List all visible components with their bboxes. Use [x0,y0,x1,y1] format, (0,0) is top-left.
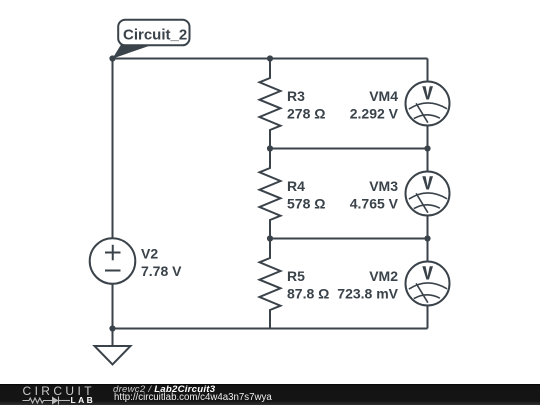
node flag Circuit_2 [112,20,189,59]
junction R3/R4 row2 left [267,145,273,151]
svg-text:278 Ω: 278 Ω [287,106,325,122]
voltmeter VM4 labels [350,88,399,122]
junction row2 right [424,145,430,151]
wire: right column segment row2 to VM3 top [427,149,429,172]
wire: row 3 horizontal (R4 bottom / R5 top to meters column) [270,238,428,240]
wire: right column segment VM4 bottom to row2 [427,126,429,149]
ground [95,329,131,365]
junction R4/R5 row3 left [267,235,273,241]
wire: V2 bottom to bottom-left node [112,284,114,329]
wire: row 2 horizontal (R3 bottom / R4 top to meters column) [270,148,428,150]
svg-text:Circuit_2: Circuit_2 [123,27,187,44]
wire: bottom horizontal net [113,328,428,330]
footer line 1: user / circuit name [113,385,215,394]
voltmeter VM2 [406,262,450,306]
junction bottom-left node [109,325,115,331]
svg-text:4.765 V: 4.765 V [350,196,399,212]
svg-text:VM4: VM4 [369,88,398,104]
voltmeter VM2 labels [337,268,398,302]
resistor R5 [260,239,281,329]
CircuitLab logo schematic (resistor + diode) [18,395,70,405]
footer line 2: url [114,393,272,402]
junction R3 top [267,55,273,61]
svg-text:R3: R3 [287,88,305,104]
resistor R4 labels [287,178,325,212]
resistor R3 labels [287,88,325,122]
voltmeter VM4 [406,82,450,126]
wire: right column segment VM3 bottom to row3 [427,216,429,239]
wire: top horizontal net from node A to right column [113,58,428,60]
svg-text:R5: R5 [287,268,305,284]
svg-text:R4: R4 [287,178,305,194]
voltage source V2 labels [141,246,182,280]
voltage source V2 [90,238,136,284]
svg-text:7.78 V: 7.78 V [141,263,182,279]
CircuitLab logo text LAB [71,397,96,404]
wire: right column segment VM2 bottom to bottom net [427,306,429,329]
CircuitLab logo text CIRCUIT [23,386,95,396]
resistor R5 labels [287,268,329,302]
voltmeter VM3 labels [350,178,399,212]
voltmeter VM3 [406,172,450,216]
svg-text:V2: V2 [141,246,158,262]
junction row3 right [424,235,430,241]
wire: left vertical from node A down to V2 top [112,59,114,239]
wire: right column segment row3 to VM2 top [427,239,429,262]
svg-text:2.292 V: 2.292 V [350,106,399,122]
footer bar [0,384,540,405]
resistor R3 [260,59,281,149]
junction at node A (top-left) [109,55,115,61]
wire: right column segment VM4 top [427,59,429,82]
svg-text:87.8 Ω: 87.8 Ω [287,286,329,302]
svg-text:578 Ω: 578 Ω [287,196,325,212]
svg-text:VM2: VM2 [369,268,398,284]
resistor R4 [260,149,281,239]
svg-text:VM3: VM3 [369,178,398,194]
svg-text:723.8 mV: 723.8 mV [337,286,398,302]
